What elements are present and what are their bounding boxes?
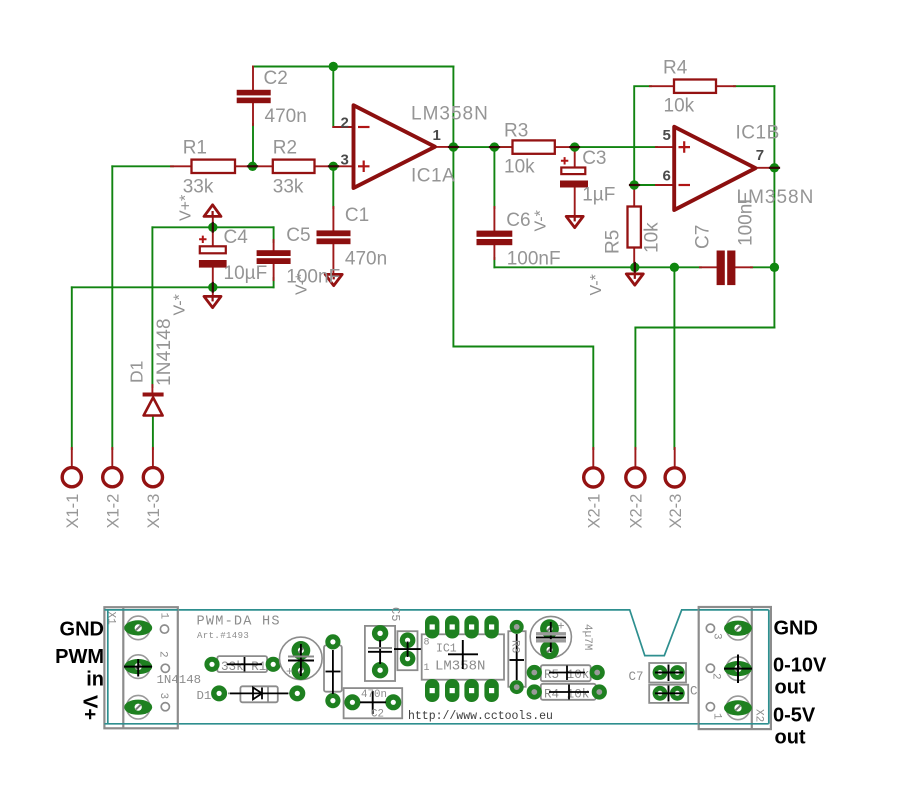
pcb resistor R3 pads (510, 620, 524, 694)
svg-text:1N4148: 1N4148 (154, 318, 175, 386)
pcb resistor R2 pads (325, 634, 340, 708)
wire red stub R3 left (494, 146, 512, 148)
pcb resistor R1 lead (227, 657, 262, 672)
capacitor C1 plates (317, 230, 351, 244)
svg-text:in: in (86, 668, 104, 690)
junction R5 bottom V- rail (630, 263, 639, 272)
svg-text:10k: 10k (664, 96, 695, 117)
wire red stub R1 left (171, 165, 192, 167)
pcb capacitor C6 pads (653, 686, 685, 701)
supply V-* arrow below C1 (325, 274, 342, 285)
capacitor C4 polarized (199, 236, 227, 268)
pcb IC1 lead cross (448, 640, 478, 669)
wire net N$2 feedback vertical right (452, 67, 454, 147)
junction pin3 node (329, 162, 338, 171)
svg-text:8: 8 (424, 638, 430, 649)
svg-text:C5: C5 (286, 225, 310, 246)
svg-text:7: 7 (756, 147, 764, 164)
op-amp IC1A minus mark (358, 126, 370, 128)
svg-text:470n: 470n (265, 106, 307, 127)
wire D1 to X1-3 pad (152, 415, 154, 449)
wire red C2 stem upper (252, 67, 254, 91)
connector X2 open holes (706, 624, 714, 711)
capacitor C6 plates (477, 231, 513, 246)
svg-text:http://www.cctools.eu: http://www.cctools.eu (408, 710, 553, 723)
wire red X1-1 pad stub (71, 448, 73, 467)
op-amp IC1A plus mark (358, 161, 370, 173)
connector X2 body (699, 607, 771, 729)
svg-text:4µ7M: 4µ7M (581, 624, 593, 650)
svg-text:R3: R3 (509, 640, 521, 653)
pcb capacitor C4 body circle (280, 637, 323, 680)
diode D1 (143, 395, 164, 416)
svg-text:V+*: V+* (178, 195, 195, 221)
pcb IC1 pad holes (430, 624, 495, 693)
pcb capacitor C7 lead cross (655, 665, 683, 682)
svg-text:C5: C5 (388, 607, 402, 621)
pcb resistor R3 lead (510, 634, 525, 680)
pcb IC1 pads row bottom (425, 679, 499, 702)
capacitor C3 polarized (560, 157, 588, 187)
wire red C4 stem bottom (212, 268, 214, 288)
svg-text:C7: C7 (693, 225, 714, 249)
wire red R5 stem top (633, 185, 635, 207)
svg-text:0-5V: 0-5V (773, 704, 816, 726)
op-amp IC1A (354, 105, 436, 188)
svg-text:PWM-DA HS: PWM-DA HS (197, 614, 281, 629)
svg-text:2: 2 (341, 115, 349, 132)
wire pin2 drop from feedback rail (332, 67, 334, 128)
svg-text:2: 2 (710, 673, 722, 680)
wire red X2-3 pad stub (674, 448, 676, 467)
wire C5 bottom stub (273, 278, 275, 287)
wire R4 right to output column (734, 85, 774, 87)
pcb capacitor C1 package (397, 631, 417, 670)
svg-text:R2: R2 (273, 138, 297, 159)
junction dark overlay pin6 (630, 184, 639, 186)
connector X2 lead cross pad2 (724, 655, 752, 684)
resistor R2 (273, 160, 315, 173)
pcb capacitor C5 pads (372, 625, 388, 678)
svg-text:Art.#1493: Art.#1493 (197, 631, 249, 641)
svg-text:1µF: 1µF (582, 185, 615, 206)
connector X1 open holes (160, 625, 169, 711)
wire red C3 stem bottom (574, 188, 576, 217)
wire red stub pin 2 (333, 126, 354, 128)
svg-text:5: 5 (663, 127, 671, 144)
pcb capacitor C6 package (649, 685, 688, 703)
wire R3 right to pin 5 (575, 146, 657, 148)
capacitor C7 plates (717, 251, 736, 286)
pcb capacitor C1 lead (394, 642, 422, 658)
wire red C4 V- tick (212, 287, 214, 296)
svg-text:C4: C4 (224, 227, 249, 248)
junction dark overlay R5 bottom (634, 263, 636, 272)
pcb resistor R5 pads (527, 665, 605, 680)
svg-text:R5: R5 (603, 230, 624, 254)
resistor R4 (674, 80, 716, 93)
wire pin6 stub green (634, 184, 657, 186)
wire C2 stem lower green (252, 124, 254, 166)
svg-text:C2: C2 (371, 709, 384, 721)
wire red C4 stem top (212, 227, 214, 246)
wire red C5 stem top (273, 240, 275, 251)
board outline (108, 610, 769, 724)
wire V+ rail (152, 226, 273, 228)
pcb capacitor C7 package (649, 663, 686, 683)
svg-text:1: 1 (424, 663, 430, 674)
connector pad X2-1 (584, 468, 603, 487)
wire red C5 stem bottom (273, 264, 275, 280)
wire X2-3 vertical from V- rail (673, 267, 675, 449)
junction V- rail X2-3 (670, 263, 679, 272)
supply V+* arrow (204, 205, 221, 217)
connector X1 pad 1 (124, 620, 152, 635)
wire red stub pin 6 (656, 184, 674, 186)
svg-text:LM358N: LM358N (411, 104, 489, 125)
svg-text:C7: C7 (629, 670, 644, 684)
svg-text:C1: C1 (345, 205, 369, 226)
supply V-* arrow below C3 (566, 216, 583, 227)
connector X2 pad rings (726, 616, 750, 719)
pcb IC1 silk texts (424, 638, 486, 675)
pcb resistor R2 package vertical (324, 645, 342, 691)
svg-text:R1: R1 (183, 138, 207, 159)
pcb capacitor C7 pads (653, 665, 685, 680)
wire red X1-2 pad stub (111, 448, 113, 467)
svg-text:X1-3: X1-3 (145, 494, 163, 529)
op-amp IC1B plus mark (679, 141, 691, 153)
connector X1 pad 2 (124, 659, 152, 674)
svg-text:+: + (286, 664, 293, 678)
junction R1-R2 (248, 162, 257, 171)
svg-text:3: 3 (341, 152, 349, 169)
pcb resistor R4 package (534, 684, 599, 700)
wire red stub output pin 1 (435, 146, 453, 148)
wire red R5 stem bottom (633, 248, 635, 268)
svg-text:33k: 33k (273, 176, 304, 197)
wire red X1-3 pad stub (152, 448, 154, 467)
svg-text:C2: C2 (264, 68, 288, 89)
svg-text:X2-3: X2-3 (667, 494, 685, 529)
pcb trimmer C3 lead cross (536, 622, 566, 652)
board outline behind X1 (104, 610, 177, 724)
wire V- left rail (72, 286, 274, 288)
junction dark overlay C6 tap (490, 146, 499, 148)
connector X2 pad 3 (724, 621, 752, 636)
connector X1 pad 3 (124, 700, 152, 715)
junction dark overlay R3-C3 (570, 146, 579, 148)
wire C7 right lead green (751, 266, 774, 268)
svg-text:IC1B: IC1B (736, 123, 780, 144)
svg-text:R3: R3 (504, 121, 528, 142)
board outline behind X2 (699, 610, 769, 724)
wire red C1 stem upper (332, 207, 334, 231)
svg-text:1N4148: 1N4148 (157, 673, 202, 687)
svg-text:C3: C3 (582, 148, 606, 169)
pcb capacitor C4 pads (292, 641, 311, 680)
resistor R1 (192, 160, 236, 173)
wire X1-1 vertical (71, 287, 73, 449)
junction V- rail C4 (208, 283, 217, 292)
capacitor C5 plates (257, 250, 291, 264)
pcb diode D1 lead symbol (230, 688, 288, 700)
wire red X2-2 pad stub (634, 448, 636, 467)
svg-text:6: 6 (663, 168, 671, 185)
connector X2 pad 1 (724, 700, 752, 715)
pcb resistor R5 lead (549, 666, 585, 681)
wire red C7 right lead (735, 266, 752, 268)
pcb resistor R1 pads (204, 657, 280, 672)
junction dark overlay C4 bottom (212, 283, 214, 292)
svg-text:PWM: PWM (55, 646, 104, 668)
wire output1 long vertical to X2-1 (453, 147, 593, 449)
op-amp IC1B minus mark (679, 184, 691, 186)
wire C5 top stub (273, 227, 275, 242)
junction dark overlay R1-R2 (248, 165, 257, 167)
wire net N$2 top feedback horizontal (253, 66, 453, 68)
svg-text:470n: 470n (361, 689, 387, 701)
pcb resistor R4 lead (549, 685, 589, 700)
svg-text:R4: R4 (663, 57, 688, 78)
pcb IC1 pads row top (425, 616, 499, 639)
wire red C6 stem lower (493, 245, 495, 259)
wire red V+ arrow stem (212, 217, 214, 227)
wire X1-2 vertical (111, 166, 113, 449)
pcb resistor R1 package (212, 656, 272, 672)
connector pad X1-3 (143, 468, 162, 487)
PCB (55, 607, 827, 749)
junction pin6-R5 (630, 180, 639, 189)
pcb capacitor C5 lead cross (368, 640, 392, 664)
svg-text:10k: 10k (642, 222, 663, 253)
junction V+ rail C4 (208, 223, 217, 232)
wire red C1 stem lower to V- arrow (332, 245, 334, 275)
svg-text:X1-2: X1-2 (105, 494, 123, 529)
junction dark overlay pin7 (770, 167, 779, 169)
wire red X2-1 pad stub (592, 448, 594, 467)
junction C6 tap (490, 142, 499, 151)
pcb capacitor C5 package (365, 626, 395, 681)
wire pin3 node down to C1 (332, 166, 334, 208)
svg-text:2: 2 (157, 651, 169, 658)
pcb capacitor C2 pads (344, 694, 401, 710)
svg-text:33k: 33k (183, 176, 214, 197)
svg-text:GND: GND (60, 618, 104, 640)
svg-text:10µF: 10µF (224, 263, 268, 284)
connector X2 pad 2 (724, 661, 752, 676)
connector X1 body (104, 607, 177, 728)
junction feedback top (329, 62, 338, 71)
svg-text:IC1A: IC1A (411, 166, 455, 187)
connector X1 pad rings (126, 616, 150, 719)
pcb trimmer C3 pads (540, 619, 559, 659)
svg-text:V-*: V-* (533, 210, 550, 231)
pcb capacitor C6 lead cross (655, 686, 683, 702)
resistor R5 (628, 207, 641, 248)
capacitor C2 plates (237, 90, 271, 103)
pcb diode D1 package (228, 686, 290, 702)
svg-text:1: 1 (711, 713, 723, 720)
wire red D1 top stub (151, 385, 153, 393)
svg-text:D1: D1 (126, 361, 146, 383)
svg-text:X1-1: X1-1 (64, 494, 82, 529)
pcb capacitor C4 lead cross (288, 644, 314, 676)
wire red stub R3 right (555, 146, 575, 148)
junction dark overlay C4 top (212, 223, 214, 232)
wire X2-2 vertical (634, 328, 636, 450)
pcb trimmer C3 body (530, 616, 571, 657)
wire C6 branch vertical (493, 147, 495, 208)
svg-text:V-*: V-* (588, 274, 605, 295)
junction R3-C3 (570, 142, 579, 151)
svg-text:100nF: 100nF (736, 192, 757, 246)
wire C6 bottom to V- rail (493, 258, 495, 267)
svg-text:V+: V+ (79, 695, 101, 720)
wire output column pin7 vertical (773, 86, 775, 327)
wire red stub pin 7 (756, 167, 775, 169)
connector pad X2-3 (665, 468, 684, 487)
pcb resistor R3 package vertical (508, 631, 525, 687)
pcb capacitor C2 package (344, 688, 403, 718)
wire red stub R4 right (716, 85, 735, 87)
wire V- rail right section (494, 266, 701, 268)
pcb resistor R5 package (534, 665, 597, 681)
svg-text:X2-2: X2-2 (628, 494, 646, 529)
connector pad X1-2 (103, 468, 122, 487)
junction output pin1 (449, 142, 458, 151)
svg-text:V-*: V-* (294, 274, 311, 295)
wire red stub R2 right (315, 165, 334, 167)
wire X1-3 to D1 (151, 227, 153, 387)
junction dark overlay pin3 (329, 165, 338, 167)
pcb resistor R4 pads (527, 684, 607, 699)
wire input net to R1 left (112, 165, 173, 167)
wire red stub pin 3 (333, 165, 354, 167)
wire red stub pin 5 (656, 146, 674, 148)
wire red C3 stem top (574, 147, 576, 167)
svg-text:0-10V: 0-10V (773, 654, 827, 676)
supply V-* arrow below R5 rail (626, 274, 643, 285)
wire output node to R3 (453, 146, 512, 148)
svg-text:GND: GND (774, 618, 818, 640)
svg-text:LM358N: LM358N (435, 659, 485, 675)
svg-text:R4 10k: R4 10k (544, 688, 589, 702)
wire red stub R1-R2 (235, 165, 273, 167)
svg-text:3: 3 (711, 633, 723, 640)
connector pad X1-1 (62, 468, 81, 487)
svg-text:3: 3 (157, 693, 169, 700)
junction dark overlay output pin1 (449, 146, 458, 148)
wire red C6 stem upper (493, 207, 495, 231)
svg-text:1: 1 (158, 613, 170, 620)
svg-text:1: 1 (433, 127, 441, 144)
svg-text:out: out (775, 727, 806, 749)
supply V-* arrow below C4 (204, 296, 221, 307)
pcb IC1 package (422, 634, 504, 679)
junction pin7 output (770, 163, 779, 172)
svg-text:X2: X2 (753, 709, 765, 722)
wire red C7 left lead (700, 266, 717, 268)
wire R4 left vertical from pin 6 (634, 86, 651, 185)
pcb resistor R2 lead (326, 650, 341, 694)
svg-text:100nF: 100nF (507, 249, 561, 270)
op-amp IC1B (674, 127, 755, 210)
wire red stub R4 left (650, 85, 674, 87)
svg-text:D1: D1 (197, 689, 212, 703)
connector pad X2-2 (626, 468, 645, 487)
wire red C2 stem below plates (252, 103, 254, 125)
svg-text:X1: X1 (105, 612, 117, 626)
resistor R3 (513, 140, 555, 153)
svg-text:+: + (558, 619, 565, 633)
connector X1 lead cross pad2 (124, 659, 152, 677)
svg-text:out: out (775, 677, 806, 699)
pcb diode D1 pads (211, 685, 305, 701)
wire X2-2 horizontal jog (635, 327, 774, 329)
svg-text:X2-1: X2-1 (586, 494, 604, 529)
svg-text:C6: C6 (506, 210, 530, 231)
junction C7 right output (770, 263, 779, 272)
pcb capacitor C1 pads (400, 632, 416, 666)
pcb capacitor C2 lead cross (360, 691, 386, 714)
svg-text:470n: 470n (345, 248, 387, 269)
svg-text:10k: 10k (504, 157, 535, 178)
svg-text:V-*: V-* (172, 294, 189, 315)
